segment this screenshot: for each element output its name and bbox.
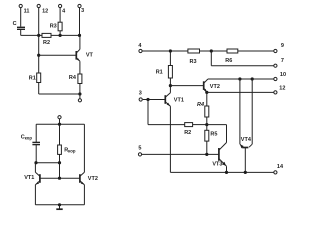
svg-text:3: 3 [139, 90, 142, 96]
svg-text:VT2: VT2 [88, 176, 98, 182]
wire R2 to node [51, 34, 80, 36]
svg-text:VT4: VT4 [241, 137, 252, 143]
node dot collector line [78, 34, 81, 37]
svg-text:R4: R4 [197, 102, 204, 108]
wire VT1c to VT2 base [170, 85, 203, 87]
node dot base [37, 54, 40, 57]
label 3 [81, 8, 84, 14]
label 4 [62, 9, 66, 15]
svg-text:R6: R6 [225, 58, 232, 64]
label VT [86, 52, 94, 58]
node dot R5 bottom [205, 153, 208, 156]
label Rcor [64, 148, 76, 154]
transistor VT2 [80, 124, 85, 205]
wire base horizontal [39, 54, 76, 56]
terminal 12 [274, 91, 277, 94]
wire top rail [36, 123, 84, 125]
wire to terminal 12 [207, 91, 274, 93]
wire to terminal 10 [208, 78, 274, 80]
svg-text:9: 9 [281, 43, 284, 49]
node dot VT4 base [244, 171, 247, 174]
node dot 12/wire [37, 34, 40, 37]
label Ccor [21, 135, 33, 141]
label 3 [139, 90, 142, 96]
resistor R4 [205, 92, 209, 124]
terminal 7 [274, 64, 277, 67]
node dot VT1 collector [169, 84, 172, 87]
transistor VT1 [35, 163, 40, 205]
ground [56, 205, 62, 209]
svg-text:R1: R1 [156, 69, 163, 75]
svg-text:VT3: VT3 [212, 161, 222, 167]
terminal 3 [139, 98, 165, 101]
wire base node vertical [38, 35, 40, 73]
wire VT3 collector [207, 125, 227, 143]
resistor R5 [205, 125, 209, 155]
resistor R3 [58, 22, 62, 35]
label VT1 [174, 97, 184, 103]
transistor VT4 [240, 79, 252, 172]
label 7 [281, 58, 284, 64]
terminal 4 [59, 4, 62, 22]
label 9 [281, 43, 284, 49]
label R4 [197, 102, 204, 108]
node dot base VT1 [146, 98, 149, 101]
label R5 [210, 131, 217, 137]
label 12 [279, 85, 285, 91]
svg-text:R1: R1 [29, 75, 36, 81]
wire collector rail [35, 162, 59, 164]
node dot VT3 emitter [225, 171, 228, 174]
transistor VT [76, 35, 80, 74]
svg-text:R3: R3 [190, 59, 197, 65]
label 11 [24, 9, 30, 15]
wire base node 3 vertical [148, 100, 185, 125]
resistor R1 [37, 73, 41, 94]
label R2 [43, 40, 50, 46]
node dot R3 [59, 34, 62, 37]
node dot mid top [210, 49, 213, 52]
svg-text:R2: R2 [43, 40, 50, 46]
label VT3 [212, 161, 222, 167]
resistor R2 [185, 123, 207, 127]
label R1 [29, 75, 36, 81]
svg-text:12: 12 [42, 9, 48, 15]
svg-text:7: 7 [281, 58, 284, 64]
svg-text:VT1: VT1 [24, 175, 34, 181]
node dot Rcor bottom [58, 161, 61, 164]
svg-text:10: 10 [280, 72, 286, 78]
label R3 [190, 59, 197, 65]
terminal 11 [19, 4, 22, 26]
label VT4 [241, 137, 252, 143]
wire top horizontal [21, 34, 42, 36]
label 14 [277, 164, 284, 170]
resistor Rcor [58, 124, 62, 163]
label R4 [69, 75, 77, 81]
terminal 9 [274, 49, 277, 52]
node dot cap/collector [34, 161, 37, 164]
label VT2 [210, 84, 220, 90]
node dot R2/R4/R5 [205, 123, 208, 126]
label 10 [280, 72, 286, 78]
node dot R1 top [169, 49, 172, 52]
label R3 [50, 23, 57, 29]
svg-text:C: C [13, 21, 17, 27]
svg-text:R2: R2 [184, 130, 191, 136]
node dot VT4 e [238, 77, 241, 80]
svg-text:VT1: VT1 [174, 97, 184, 103]
label C [13, 21, 17, 27]
wire to terminal 7 [211, 51, 273, 66]
label 5 [138, 146, 141, 152]
label R2 [184, 130, 191, 136]
terminal 5 [138, 153, 218, 156]
svg-text:Rкор: Rкор [64, 148, 76, 154]
capacitor Ccor [32, 124, 40, 163]
svg-text:R4: R4 [69, 75, 77, 81]
terminal 10 [274, 77, 277, 80]
resistor R6 [227, 49, 238, 53]
wire emitter rail [35, 204, 84, 206]
transistor VT1 [165, 86, 170, 173]
label R1 [156, 69, 163, 75]
svg-text:R3: R3 [50, 23, 57, 29]
transistor VT2 [204, 79, 208, 92]
svg-text:5: 5 [138, 146, 141, 152]
node dot bottom [78, 92, 81, 95]
svg-text:VT: VT [86, 52, 94, 58]
node dot VT2 emitter [205, 91, 208, 94]
svg-text:4: 4 [62, 9, 66, 15]
wire R3 to R8 [200, 50, 228, 52]
wire Rcor to bases [59, 163, 61, 179]
svg-text:Cкор: Cкор [21, 135, 33, 141]
label VT2 [88, 176, 98, 182]
wire bottom [39, 93, 80, 95]
label R6 [225, 58, 232, 64]
node dot bases [58, 177, 61, 180]
svg-text:14: 14 [277, 164, 284, 170]
svg-text:VT2: VT2 [210, 84, 220, 90]
wire bottom rail [170, 171, 273, 173]
wire bases [40, 177, 80, 179]
node dot top [58, 123, 61, 126]
resistor R4 [78, 74, 82, 94]
terminal 12 [37, 4, 40, 35]
svg-text:R5: R5 [210, 131, 217, 137]
wire to terminal 9 [238, 50, 274, 52]
svg-text:12: 12 [279, 85, 285, 91]
capacitor C [17, 27, 25, 35]
svg-text:4: 4 [138, 43, 142, 49]
svg-text:3: 3 [81, 8, 84, 14]
label 12 [42, 9, 48, 15]
label 4 [138, 43, 142, 49]
svg-text:11: 11 [24, 9, 30, 15]
terminal bottom [78, 94, 81, 102]
transistor VT3 [219, 143, 227, 173]
label VT1 [24, 175, 34, 181]
terminal 14 [274, 171, 277, 174]
resistor R3 [188, 49, 200, 53]
terminal top [58, 116, 61, 125]
node dot VT4 c [251, 77, 254, 80]
terminal 4 [139, 49, 188, 52]
terminal 3 [78, 4, 81, 35]
resistor R1 [168, 51, 172, 86]
resistor R2 [42, 33, 51, 37]
node dot ground [58, 203, 61, 206]
